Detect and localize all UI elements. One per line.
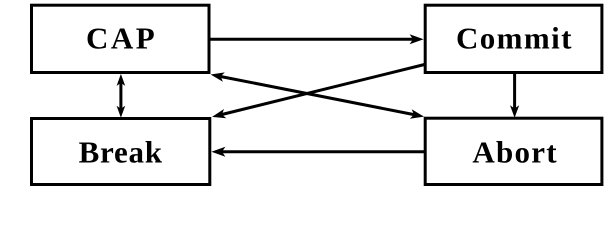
svg-text:CAP: CAP (86, 21, 157, 56)
box CAP (32, 5, 210, 72)
arrow CAP to-from Abort diagonal double (211, 72, 424, 118)
svg-text:Commit: Commit (456, 21, 573, 56)
box Break (32, 119, 210, 185)
arrow Commit to Break diagonal (212, 65, 425, 119)
arrow Abort to Break (211, 147, 425, 157)
svg-text:Abort: Abort (472, 135, 557, 170)
box Commit (425, 5, 602, 72)
arrow CAP to-from Break double (117, 74, 126, 118)
arrow Commit to Abort (510, 73, 519, 118)
svg-text:Break: Break (79, 135, 163, 170)
box Abort (425, 118, 602, 184)
arrow CAP to Commit (209, 34, 424, 44)
